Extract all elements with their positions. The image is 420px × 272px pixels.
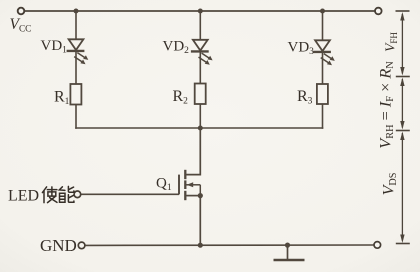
wire branch1 upper bbox=[75, 11, 77, 40]
LED VD1 bbox=[67, 39, 89, 64]
ground symbol bbox=[274, 245, 305, 260]
LED VD3 bbox=[313, 40, 335, 65]
wire ground bus bbox=[85, 244, 374, 246]
wire source down bbox=[199, 196, 201, 246]
wire bottom bus bbox=[75, 127, 323, 129]
node top branch1 bbox=[74, 9, 79, 14]
svg-text:LED: LED bbox=[8, 187, 39, 204]
wire branch1 mid bbox=[75, 51, 77, 84]
resistor R1 bbox=[70, 84, 81, 105]
node bottom bus bbox=[198, 126, 203, 131]
wire branch2 upper bbox=[199, 11, 201, 40]
resistor R2 bbox=[195, 84, 206, 105]
node source-body bbox=[198, 193, 203, 198]
terminal top right bbox=[375, 8, 382, 15]
LED VD2 bbox=[191, 40, 213, 65]
wire drain riser bbox=[186, 128, 200, 175]
wire branch3 lower bbox=[322, 104, 324, 129]
transistor Q1 bbox=[179, 170, 200, 200]
wire gate lead bbox=[81, 193, 179, 195]
node top branch2 bbox=[198, 9, 203, 14]
resistor R3 bbox=[317, 84, 328, 104]
terminal GND bbox=[78, 242, 85, 249]
dimension VDS bbox=[396, 131, 410, 244]
terminal bottom right bbox=[374, 242, 381, 249]
node gnd earth bbox=[285, 243, 290, 248]
wire top bus bbox=[25, 10, 376, 12]
dimension VRH bbox=[396, 77, 410, 130]
wire branch2 lower bbox=[199, 104, 201, 129]
terminal Vcc bbox=[18, 8, 25, 15]
dimension VFH bbox=[396, 11, 410, 76]
terminal LED enable bbox=[74, 191, 81, 198]
node gnd mosfet bbox=[198, 243, 203, 248]
wire branch3 upper bbox=[322, 11, 324, 41]
wire branch2 mid bbox=[199, 52, 201, 84]
node top branch3 bbox=[320, 9, 325, 14]
svg-text:GND: GND bbox=[40, 236, 77, 255]
wire branch1 lower bbox=[75, 105, 77, 129]
label LED enable bbox=[8, 186, 74, 204]
wire branch3 mid bbox=[322, 52, 324, 84]
